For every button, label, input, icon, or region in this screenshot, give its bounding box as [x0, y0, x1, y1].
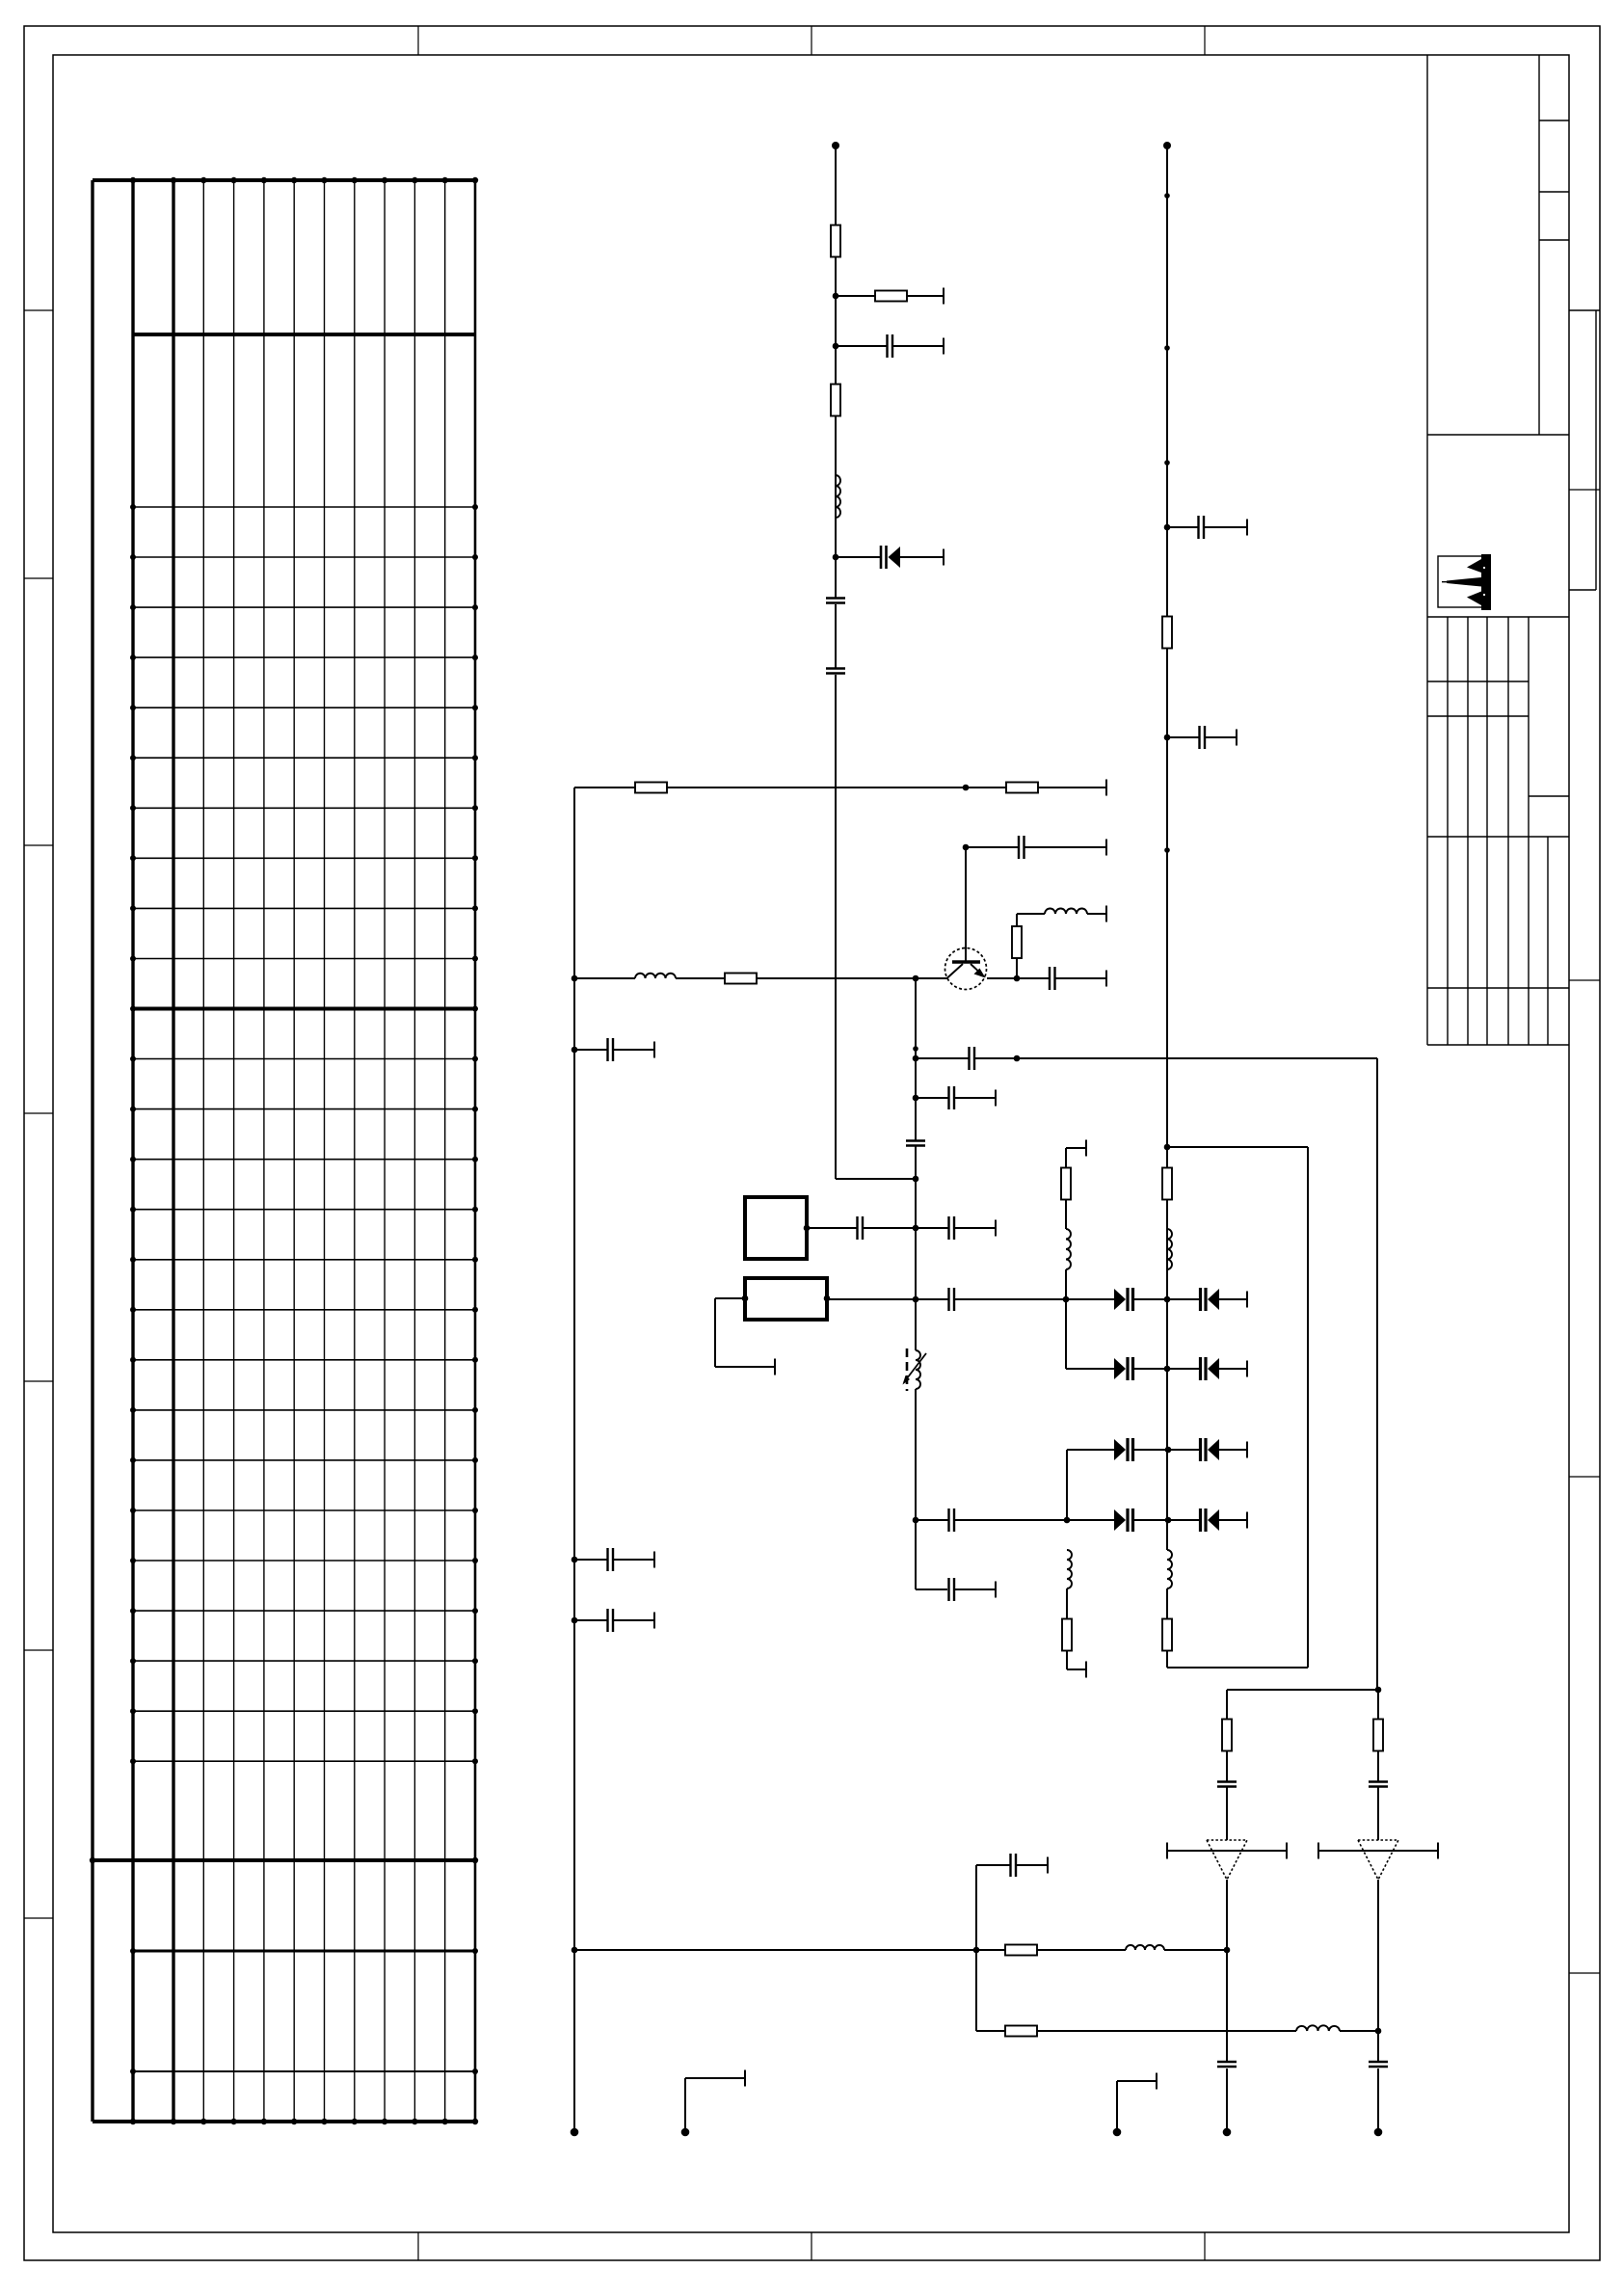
- resistor R6: [725, 974, 757, 984]
- node F7 loop corner: [1164, 1144, 1171, 1151]
- resistor R14: [1373, 1690, 1383, 1781]
- node junction with left rail elbow: [913, 1176, 919, 1183]
- resistor R15: [1005, 1945, 1037, 1956]
- node B9: [913, 1046, 919, 1061]
- wire branch x=1107 rows 1504-1577: [1067, 1450, 1114, 1520]
- capacitor C19 (series): [1369, 1782, 1388, 1841]
- resistor R13: [1222, 1720, 1232, 1782]
- capacitor C16 stub: [1167, 516, 1247, 539]
- node B8: [1014, 1055, 1021, 1062]
- resistor R7 collector load: [1012, 914, 1022, 978]
- varactor D9: [1168, 1508, 1247, 1532]
- node B6: [913, 975, 919, 982]
- wire y=817 with left rail corner: [574, 780, 1106, 796]
- inductor L6: [1067, 1550, 1072, 1619]
- buffer amp U1: [1207, 1840, 1247, 1880]
- node D row1348 left: [1063, 1296, 1070, 1303]
- varactor D8: [1067, 1508, 1168, 1532]
- node F6: [1164, 847, 1170, 853]
- node A2: [833, 343, 839, 350]
- wire X2 left to terminal: [715, 1298, 775, 1375]
- ground stub right: [1117, 2073, 1157, 2133]
- resistor R2: [831, 385, 840, 416]
- capacitor C18 (series): [1217, 1782, 1237, 1841]
- node G1: [1375, 1687, 1382, 1694]
- node C12n: [913, 1225, 919, 1232]
- capacitor C5 stub: [574, 1548, 654, 1571]
- capacitor C15 stub bottom of rail: [949, 1578, 997, 1601]
- varactor D1 stub: [836, 546, 944, 569]
- wire y=1098 to right loop: [916, 1058, 1377, 1690]
- variable inductor L4: [903, 1348, 927, 1391]
- capacitor C7: [1050, 967, 1055, 990]
- capacitor C4 stub: [574, 1038, 654, 1061]
- capacitor C12 stub: [916, 1216, 996, 1240]
- node A1: [833, 293, 839, 300]
- wire y=1753: [1227, 1690, 1378, 1720]
- pin 1430: [1374, 2128, 1383, 2137]
- wire y=1015 base feed: [574, 971, 1106, 987]
- capacitor C3 stub: [836, 334, 944, 358]
- ground stub left: [685, 2070, 745, 2133]
- title block: [1427, 55, 1600, 1045]
- inductor L2: [635, 974, 676, 978]
- node B2: [572, 975, 578, 982]
- wire X2 right to node: [827, 1296, 918, 1303]
- wire y=2107: [976, 1950, 1378, 2031]
- connector pin-field grid: [90, 177, 478, 2124]
- node E1: [1164, 1296, 1171, 1303]
- node B7: [1014, 975, 1021, 982]
- capacitor C8 stub: [966, 836, 1106, 859]
- pin 1273: [1223, 2128, 1232, 2137]
- capacitor C2 (series): [826, 669, 845, 674]
- node B1: [963, 785, 970, 791]
- wire rail x=1211: [1166, 146, 1168, 1550]
- wire branch down to row 1420: [1066, 1299, 1114, 1369]
- transistor Q1: [945, 847, 987, 990]
- node E2: [1164, 1366, 1171, 1373]
- node E4: [1165, 1517, 1172, 1524]
- resistor R16: [1005, 2026, 1037, 2037]
- inductor L10: [1296, 2025, 1340, 2031]
- capacitor C22: [1369, 2062, 1388, 2067]
- capacitor C10 (series): [906, 1141, 925, 1146]
- inductor L9: [1126, 1945, 1164, 1950]
- crystal box X2: [742, 1278, 831, 1320]
- pin 711: [681, 2128, 690, 2137]
- node F5: [1164, 734, 1171, 741]
- pin 1159: [1113, 2128, 1122, 2137]
- wire row1348: [955, 1298, 1115, 1300]
- capacitor C11 stub: [916, 1086, 996, 1109]
- resistor R11: [1162, 1168, 1172, 1200]
- node C11n: [913, 1095, 919, 1102]
- buffer amp U2: [1358, 1840, 1398, 1880]
- varactor D4: [1114, 1357, 1167, 1380]
- node top of VT rail: [1163, 142, 1171, 149]
- node Q1 base upper: [963, 844, 970, 851]
- capacitor C6 stub: [574, 1609, 654, 1632]
- resistor R8: [1061, 1148, 1071, 1229]
- node F4: [1164, 524, 1171, 531]
- capacitor C13 from box X1: [807, 1216, 916, 1240]
- node H3: [1224, 1947, 1231, 1954]
- node B3: [572, 1047, 578, 1054]
- node D row1577 left: [1064, 1517, 1071, 1524]
- resistor R4: [635, 783, 667, 793]
- inductor L5: [1066, 1229, 1071, 1299]
- capacitor C9: [970, 1047, 975, 1070]
- node H2: [973, 1947, 980, 1954]
- node F1: [1164, 193, 1170, 199]
- varactor D5: [1167, 1357, 1247, 1380]
- terminal bottom left branch: [1067, 1662, 1086, 1678]
- node E3: [1165, 1447, 1172, 1454]
- resistor R9: [1062, 1619, 1072, 1670]
- resistor R10: [1162, 617, 1172, 649]
- wire loop right: [1167, 1147, 1308, 1668]
- varactor D7: [1168, 1438, 1247, 1461]
- inductor L8: [1167, 1550, 1172, 1619]
- wire U1 output: [1226, 1880, 1228, 2132]
- node F2: [1164, 345, 1170, 351]
- resistor R5: [1006, 783, 1038, 793]
- node B5: [572, 1617, 578, 1624]
- resistor R12: [1162, 1619, 1172, 1669]
- node H4: [1375, 2028, 1382, 2035]
- node B4: [572, 1557, 578, 1563]
- node H1: [572, 1947, 578, 1954]
- capacitor C1 (series): [826, 599, 845, 603]
- node F3: [1164, 460, 1170, 466]
- varactor D3: [1167, 1288, 1247, 1311]
- resistor R3 stub: [836, 288, 944, 305]
- capacitor C14 row1577: [916, 1508, 1067, 1532]
- varactor D2: [1114, 1288, 1167, 1311]
- pin 596: [571, 2128, 579, 2137]
- capacitor C17 stub: [1167, 726, 1237, 749]
- node top of V+ rail: [832, 142, 839, 149]
- wire rail x=950: [916, 978, 947, 1589]
- wire U1 input bar: [1167, 1843, 1287, 1859]
- varactor D6: [1114, 1438, 1168, 1461]
- terminal top of branch: [1066, 1140, 1086, 1157]
- inductor L1: [836, 475, 840, 518]
- wire rail x=596: [573, 788, 575, 2132]
- logo box with cathedral emblem: [1438, 554, 1491, 610]
- capacitor C23 row1348: [916, 1288, 954, 1311]
- inductor L7: [1167, 1229, 1172, 1299]
- wire U2 input bar: [1318, 1843, 1438, 1859]
- inductor L3: [1017, 906, 1106, 922]
- node A3: [833, 554, 839, 561]
- wire y=2023: [574, 1949, 1227, 1951]
- node C14n: [913, 1517, 919, 1524]
- revision table: [1427, 617, 1569, 1045]
- wire U2 output: [1377, 1880, 1379, 2132]
- crystal box X1: [745, 1197, 810, 1259]
- capacitor C20 stub: [976, 1854, 1048, 1950]
- resistor R1: [831, 226, 840, 257]
- capacitor C21: [1217, 2062, 1237, 2067]
- wire rail x=867 top: [836, 146, 916, 1179]
